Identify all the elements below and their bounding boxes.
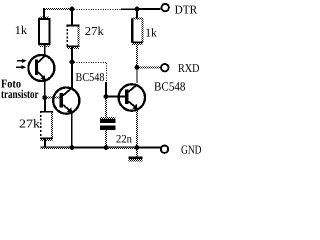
wire node B into Q2 collector [71, 62, 73, 89]
terminal DTR circle [162, 4, 169, 11]
ground rail segment solid to capacitor [72, 147, 106, 149]
phototransistor Q1 [28, 55, 54, 81]
terminal RXD circle [161, 64, 168, 71]
wire capacitor bottom to ground rail dotted [105, 130, 107, 146]
wire Q2 emitter down to ground rail [71, 113, 73, 148]
svg-text:1k: 1k [15, 23, 28, 37]
resistor 27k (top) [67, 25, 80, 49]
svg-text:BC548: BC548 [76, 70, 105, 84]
resistor 1k (top-left) [39, 16, 50, 47]
wire base node down to capacitor dotted [105, 99, 107, 119]
svg-text:DTR: DTR [175, 3, 198, 17]
wire DTR junction to DTR terminal solid [137, 8, 161, 10]
wire top rail segment from 27k junction rightwards [74, 8, 121, 10]
wire node A down to 27k [44, 98, 46, 112]
terminal GND circle [161, 146, 168, 153]
transistor Q3 BC548 (right) [119, 84, 145, 110]
svg-text:27k: 27k [19, 117, 40, 131]
ground rail segment teeth (dither) [106, 148, 137, 149]
resistor 1k (right) [132, 18, 144, 45]
svg-text:1k: 1k [145, 25, 157, 39]
wire top rail segment from left 1k to 27k junction [44, 8, 72, 10]
svg-text:GND: GND [181, 143, 202, 157]
light arrow 1 into phototransistor [17, 59, 27, 63]
wire 27k bottom to ground rail [44, 139, 46, 148]
svg-text:BC548: BC548 [154, 79, 186, 93]
resistor 27k (lower-left) [40, 111, 53, 141]
wire stub left 1k top [43, 8, 45, 19]
RXD node junction dot [135, 65, 140, 70]
ground symbol [129, 157, 143, 162]
ground rail segment from capacitor to GND node [106, 146, 137, 148]
ground rail segment from 27k to Q2 emitter [41, 146, 73, 148]
junction dot top rail at 27k [70, 7, 75, 12]
ground rail segment solid to GND terminal [137, 147, 161, 149]
node A junction dot [42, 95, 47, 100]
wire RXD node down to Q3 collector dotted [136, 69, 138, 83]
GND node junction dot [135, 145, 140, 150]
wire node C vertical dotted part [105, 63, 107, 82]
wire RXD node to RXD terminal dotted [140, 66, 161, 68]
wire Q3 emitter down to GND node dotted [136, 110, 138, 146]
wire 1k to phototransistor collector [44, 44, 46, 55]
node B junction dot [70, 60, 75, 65]
junction dot rail at capacitor [104, 145, 109, 150]
wire stub right 1k from rail [136, 9, 138, 19]
wire node A to Q2 base dotted [47, 97, 60, 99]
wire stub 27k (top) from rail [71, 8, 73, 25]
wire node C vertical solid part [105, 82, 107, 97]
ground symbol stub dotted [136, 150, 138, 157]
wire phototransistor emitter down to node A [44, 81, 46, 98]
svg-text:27k: 27k [85, 24, 104, 38]
wire top rail segment into DTR junction [121, 8, 137, 10]
ground rail segment teeth (dither) [41, 148, 73, 149]
svg-text:22n: 22n [116, 133, 132, 145]
junction dot base node of Q3 [104, 94, 109, 99]
wire base node to Q3 base [106, 96, 125, 98]
wire 27k bottom to collector node B [71, 47, 73, 62]
junction dot rail at Q2 emitter [70, 145, 75, 150]
wire node B to node C horizontal dotted [74, 62, 107, 64]
svg-text:RXD: RXD [178, 61, 200, 75]
capacitor 22n [100, 117, 115, 130]
svg-text:transistor: transistor [1, 87, 39, 101]
light arrow 2 into phototransistor [16, 65, 26, 69]
junction dot top rail at right 1k [135, 7, 140, 12]
wire right 1k down to RXD node dotted [136, 43, 138, 66]
transistor Q2 BC548 (left) [53, 88, 79, 114]
